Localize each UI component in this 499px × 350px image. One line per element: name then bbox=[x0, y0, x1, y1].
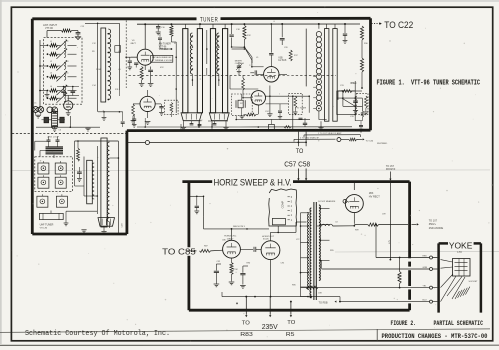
can base bypass capacitors bbox=[132, 114, 228, 127]
svg-text:220K: 220K bbox=[96, 69, 101, 71]
UHF mixer cavity 3 bbox=[38, 175, 49, 188]
tuner enclosure border (L-shape) bbox=[32, 18, 370, 234]
interstage shield wires bbox=[137, 30, 240, 130]
dotted lead-out wire to C22 bbox=[372, 22, 382, 25]
caption: FIGURE 2 bbox=[391, 320, 417, 328]
svg-text:C13: C13 bbox=[81, 26, 84, 28]
crystal dashed box (mixer grid) bbox=[231, 94, 252, 115]
UHF oscillator cavity 2 bbox=[56, 194, 67, 207]
value label cluster 1 bbox=[92, 27, 177, 91]
svg-text:TO C85: TO C85 bbox=[162, 246, 196, 256]
decorative arrow at bottom border bbox=[236, 303, 238, 305]
svg-text:AM TUNER: AM TUNER bbox=[159, 43, 171, 46]
svg-text:1 TO 1ST VIDEO IF AMP: 1 TO 1ST VIDEO IF AMP bbox=[318, 132, 342, 135]
yoke plug body bbox=[453, 259, 471, 277]
label TO C22 bbox=[384, 20, 413, 30]
svg-text:PARTIAL SCHEMATIC: PARTIAL SCHEMATIC bbox=[434, 320, 484, 328]
UHF input transformer core bbox=[46, 147, 64, 154]
yoke box border bbox=[439, 243, 481, 312]
V1 plate load parts bbox=[45, 86, 79, 98]
wire stub B to C58 bbox=[305, 132, 307, 147]
svg-text:TO R5B: TO R5B bbox=[319, 302, 328, 305]
IF transformer T1 base bbox=[181, 113, 202, 130]
V4 cathode resistor R22 bbox=[240, 113, 259, 119]
HV filament choke bbox=[317, 221, 338, 226]
svg-text:C4: C4 bbox=[66, 61, 68, 63]
IF transformer T2 base bbox=[209, 113, 229, 130]
lead-in label TO 1ST FROM SOUND bbox=[386, 166, 396, 171]
IF output coupling bbox=[266, 104, 289, 119]
caption: PRODUCTION CHANGES - MTR-537C-00 bbox=[382, 333, 488, 340]
UHF mixer cavity 4 bbox=[55, 175, 66, 188]
AGC filter dashed box (right) bbox=[357, 93, 369, 115]
value label cluster 2 bbox=[236, 29, 369, 118]
svg-text:235V: 235V bbox=[262, 324, 278, 331]
B+ supply bus wire bbox=[137, 23, 360, 25]
RF input coil L7 slug bbox=[101, 28, 106, 102]
V2 cathode resistor R7 bbox=[139, 67, 145, 87]
svg-text:WHT/RED: WHT/RED bbox=[377, 143, 388, 145]
RF amp tube V1 6BQ7A bbox=[47, 95, 73, 115]
dropping resistor R12 (vertical) bbox=[243, 25, 246, 48]
svg-text:TO C30: TO C30 bbox=[366, 141, 374, 143]
svg-text:1.5M: 1.5M bbox=[398, 274, 400, 279]
RF coil feed wire (left) bbox=[81, 23, 120, 112]
oscillator coil T3 base bbox=[318, 111, 326, 130]
oscillator section grid wire bbox=[158, 33, 245, 76]
cathode capacitor C93 bbox=[240, 266, 248, 288]
svg-text:TO 1ST: TO 1ST bbox=[386, 166, 395, 168]
svg-text:L70: L70 bbox=[457, 250, 462, 254]
UHF mixer cavity 2 bbox=[55, 161, 66, 174]
grid resistor R17 bbox=[289, 50, 292, 61]
svg-text:REPLACE WHEN DEF: REPLACE WHEN DEF bbox=[152, 56, 172, 59]
svg-text:TUNER: TUNER bbox=[200, 17, 219, 24]
yoke wire 4 (blue) bbox=[339, 299, 437, 303]
label L70 bbox=[457, 250, 462, 254]
label 235V bbox=[262, 324, 278, 331]
yoke plug label SOCKET bbox=[469, 281, 479, 283]
svg-text:C5: C5 bbox=[66, 73, 68, 75]
IF transformer T1 windings bbox=[183, 24, 203, 113]
label YOKE bbox=[449, 240, 473, 250]
svg-text:DO NOT MEASURE: DO NOT MEASURE bbox=[318, 200, 336, 203]
svg-text:350V+: 350V+ bbox=[429, 223, 437, 226]
svg-text:2ND ANODE: 2ND ANODE bbox=[429, 227, 444, 230]
tuner internal dashed divider bbox=[12, 132, 127, 134]
caption: Schematic Courtesy Of Motorola, Inc. bbox=[25, 330, 170, 338]
UHF mixer cavity 1 bbox=[38, 161, 49, 174]
label TO R5B bbox=[319, 301, 337, 305]
component pack outline (irregular) bbox=[269, 189, 297, 226]
svg-text:HORIZ SWEEP & H.V.: HORIZ SWEEP & H.V. bbox=[214, 176, 292, 187]
V3 label bbox=[278, 57, 287, 62]
AGC filter dashed box (left) bbox=[288, 93, 302, 115]
svg-text:2 TO 2ND VIDEO IF: 2 TO 2ND VIDEO IF bbox=[300, 138, 319, 140]
production changes box divider bbox=[376, 329, 378, 341]
bottom feed wire TO R5 bbox=[290, 301, 292, 318]
value label cluster 3 (ANT box) bbox=[50, 41, 68, 88]
oscillator coil T3 winding circles bbox=[313, 24, 321, 111]
oscillator feedback capacitor C18 bbox=[229, 24, 244, 48]
svg-text:GRN: GRN bbox=[423, 267, 428, 269]
RF input coil L7 winding bbox=[107, 29, 110, 100]
mixer grid resistor R21 bbox=[242, 75, 245, 99]
trimmer stack assembly bbox=[42, 112, 65, 132]
svg-text:UHF TUNER: UHF TUNER bbox=[40, 223, 54, 226]
IF output wire with junction bbox=[127, 141, 306, 145]
antenna section bottom wire bbox=[36, 116, 100, 131]
svg-text:FIGURE 2.: FIGURE 2. bbox=[391, 320, 417, 328]
svg-text:TO: TO bbox=[242, 321, 250, 327]
label ANT INPUT bbox=[43, 23, 58, 30]
mixer bottom bus wire bbox=[235, 96, 310, 130]
figure 2 value labels bbox=[204, 214, 387, 295]
mixer output wire bbox=[230, 76, 258, 89]
svg-text:HORIZ OSC: HORIZ OSC bbox=[224, 236, 237, 238]
yoke hatching bbox=[455, 287, 470, 299]
tube V3 oscillator 6U8 bbox=[257, 62, 287, 82]
tube V2 6BZ7 RF amplifier bbox=[131, 23, 153, 70]
decoupling capacitor C10 bbox=[156, 24, 161, 35]
sound IF destination label bbox=[366, 141, 388, 145]
RF coil tap wire (right) bbox=[115, 23, 121, 96]
label TUNER bbox=[200, 17, 219, 24]
V3 plate feed bbox=[269, 23, 273, 62]
label HORIZ SWEEP & H.V. bbox=[214, 176, 292, 187]
UHF antenna input capacitors bbox=[47, 137, 60, 142]
svg-text:AT TERMINAL 4 SOLDER: AT TERMINAL 4 SOLDER bbox=[152, 59, 174, 62]
tuning gang dashed link bbox=[129, 74, 337, 76]
mixer screen ground wire bbox=[267, 86, 272, 117]
component pack pin list bbox=[288, 197, 293, 222]
svg-text:SOCKET: SOCKET bbox=[469, 281, 479, 283]
caption: PARTIAL SCHEMATIC bbox=[434, 320, 484, 328]
svg-text:TO TUNER: TO TUNER bbox=[297, 108, 307, 110]
svg-text:R83: R83 bbox=[240, 332, 253, 338]
bottom feed wire TO R83 bbox=[245, 296, 247, 318]
UHF antenna label bbox=[48, 136, 60, 139]
arrow wire into C57 bbox=[297, 169, 299, 181]
svg-text:6CD6: 6CD6 bbox=[263, 239, 269, 241]
figure 2 enclosure top dash bbox=[182, 180, 212, 183]
UHF section wires bbox=[35, 140, 119, 233]
oscillator tank diagonal wire bbox=[244, 47, 263, 67]
label TO C85 bbox=[162, 246, 196, 256]
svg-text:OSC ADJ: OSC ADJ bbox=[235, 62, 244, 65]
tube V20 horizontal output bbox=[261, 222, 306, 260]
svg-text:6BZ7: 6BZ7 bbox=[131, 43, 137, 45]
svg-text:TO: TO bbox=[287, 320, 295, 326]
video IF routing bracket 1 bbox=[304, 132, 361, 137]
sound takeoff label bbox=[351, 83, 358, 85]
mixer grid leak label bbox=[235, 61, 244, 66]
UHF transformer leads bbox=[40, 141, 58, 158]
oscillator network ladder bbox=[337, 81, 364, 132]
coupling capacitor C20 bbox=[280, 24, 285, 45]
wire from left border to component pack bbox=[190, 196, 269, 230]
svg-text:VTU-90: VTU-90 bbox=[40, 227, 48, 229]
svg-text:TO C22: TO C22 bbox=[384, 20, 413, 30]
top bus right segment drops bbox=[343, 24, 348, 43]
capacitor C1 with ground bbox=[75, 31, 81, 40]
UHF IF coil L18 (tall) bbox=[101, 138, 110, 228]
tube V19 horizontal oscillator label bbox=[224, 236, 237, 241]
sound IF takeoff wire bbox=[337, 138, 365, 142]
svg-text:RED: RED bbox=[423, 255, 428, 257]
svg-text:L30: L30 bbox=[340, 91, 343, 93]
heater supply wire bbox=[240, 118, 352, 128]
label TO R83 bbox=[240, 321, 253, 338]
V2 grid wire bbox=[125, 56, 137, 58]
svg-text:C6: C6 bbox=[59, 130, 61, 132]
UHF oscillator cavity 1 bbox=[37, 194, 48, 207]
svg-text:L3: L3 bbox=[50, 73, 52, 75]
svg-text:SEE P: SEE P bbox=[350, 83, 356, 85]
arrow wire into C58 bbox=[305, 169, 307, 181]
fine tuning trimmer bbox=[236, 62, 243, 74]
V20 cathode wire bbox=[270, 260, 272, 297]
B+ feed resistor R30 (vertical, right) bbox=[360, 26, 363, 89]
UHF B+ resistor R41 bbox=[77, 148, 80, 161]
B+ distribution wire bbox=[222, 292, 341, 303]
svg-text:470K: 470K bbox=[233, 269, 238, 271]
caption: FIGURE 1. VTT-96 TUNER SCHEMATIC bbox=[377, 79, 481, 87]
UHF IF coil L17 (mid) bbox=[87, 160, 95, 204]
svg-text:Schematic Courtesy Of Motorola: Schematic Courtesy Of Motorola, Inc. bbox=[25, 330, 170, 338]
boost resistor 1.5M on yoke feed bbox=[398, 257, 401, 289]
svg-text:C6: C6 bbox=[66, 86, 68, 88]
UHF ground symbols bbox=[64, 196, 87, 233]
svg-text:TO: TO bbox=[296, 148, 304, 155]
HV anode lead to top border bbox=[353, 183, 355, 190]
yoke wiring fan bbox=[441, 260, 466, 302]
svg-text:PRODUCTION CHANGES - MTR-537C-: PRODUCTION CHANGES - MTR-537C-00 bbox=[382, 333, 488, 340]
svg-text:L1: L1 bbox=[50, 41, 52, 43]
mixer plate output wire bbox=[265, 95, 310, 97]
V2 designator label bbox=[131, 40, 137, 45]
V19 cathode resistor R88 bbox=[229, 258, 235, 285]
V2 grid trimmer capacitors bbox=[128, 57, 139, 70]
svg-text:V3B: V3B bbox=[278, 57, 283, 59]
oscillator coil T3 slug rectangles bbox=[306, 24, 337, 121]
IF transformer T2 windings bbox=[210, 24, 227, 113]
AGC line dashed box (V2B plate) bbox=[165, 100, 178, 117]
tube V2B mixer section bbox=[133, 90, 161, 124]
svg-text:R5: R5 bbox=[286, 332, 295, 338]
label UHF TUNER bbox=[40, 223, 54, 229]
antenna series resistor R1 bbox=[47, 29, 78, 38]
dropping resistor R3 (vertical) bbox=[170, 25, 173, 42]
yoke wire 2 (green) bbox=[322, 260, 438, 270]
svg-text:FIGURE 1. VTT-96 TUNER SCHEMA: FIGURE 1. VTT-96 TUNER SCHEMATIC bbox=[377, 79, 481, 87]
svg-text:L4: L4 bbox=[50, 86, 52, 88]
coupling capacitor C90 bbox=[240, 247, 261, 252]
svg-text:HORIZ OUT: HORIZ OUT bbox=[262, 236, 275, 238]
V2 bypass capacitor C8 bbox=[148, 67, 154, 87]
width coil feed wire bbox=[389, 182, 391, 261]
label TO R5 bbox=[286, 320, 296, 338]
IF takeoff vertical wire bbox=[293, 96, 307, 130]
shield dashed line (vertical) bbox=[125, 21, 127, 89]
UHF crystal holder box bbox=[39, 211, 63, 220]
svg-text:C57 C58: C57 C58 bbox=[284, 159, 310, 168]
V2B grid components bbox=[131, 104, 164, 123]
svg-text:HV RECT: HV RECT bbox=[369, 196, 380, 199]
flyback transformer T20 bbox=[301, 202, 330, 300]
label TO 107 350V 2ND ANODE bbox=[429, 220, 444, 230]
bottom feed wire 235V bbox=[269, 297, 271, 318]
svg-text:YOKE: YOKE bbox=[449, 240, 473, 250]
svg-text:L2: L2 bbox=[50, 61, 52, 63]
svg-text:BLU: BLU bbox=[423, 299, 428, 301]
tube V19 horizontal oscillator bbox=[223, 229, 241, 258]
screen bypass capacitor C92 bbox=[214, 264, 221, 287]
UHF IF coil L18 base bbox=[98, 218, 115, 235]
antenna section left bus wire bbox=[39, 40, 47, 108]
UHF bypass capacitor C44 bbox=[77, 167, 82, 181]
UHF output label bbox=[122, 223, 124, 227]
UHF tuner dashed enclosure bbox=[35, 157, 73, 192]
wire stub A to C57 bbox=[298, 132, 300, 147]
V3 plate capacitor C21 bbox=[250, 70, 256, 75]
tube V21 HV rectifier 1B3 bbox=[343, 195, 363, 224]
component pack inner rectangle bbox=[272, 218, 285, 224]
antenna input tuned circuits L1-L6 bbox=[47, 39, 77, 103]
RF coil bottom wire bbox=[98, 111, 125, 127]
label TO C57 C58 bbox=[284, 148, 310, 168]
wire from sound IF into figure 2 box bbox=[389, 172, 391, 181]
figure 2 enclosure border bbox=[189, 182, 410, 311]
grid capacitor C84 bbox=[194, 196, 199, 214]
svg-text:C2: C2 bbox=[66, 41, 68, 43]
svg-text:TO 107: TO 107 bbox=[429, 220, 438, 223]
svg-text:COMP: COMP bbox=[281, 201, 284, 209]
svg-text:L5: L5 bbox=[34, 102, 36, 104]
balun test loops J1 J2 bbox=[33, 102, 44, 118]
svg-text:VTT-96: VTT-96 bbox=[45, 27, 54, 30]
sound takeoff network bbox=[338, 90, 362, 114]
tube V4 mixer 6U8 pentode bbox=[243, 91, 266, 114]
wire from C85 into box bbox=[187, 249, 223, 252]
oscillator injection wire bbox=[244, 47, 252, 63]
yoke wire 3 (yellow) bbox=[301, 285, 438, 289]
svg-text:FROM IF: FROM IF bbox=[386, 169, 396, 171]
V21 label bbox=[318, 192, 380, 203]
V2 identification text block bbox=[159, 43, 171, 52]
antenna matching network dashed box bbox=[44, 38, 82, 105]
video IF routing bracket 2 bbox=[294, 138, 336, 142]
tube V20 horizontal output label bbox=[262, 236, 275, 241]
svg-text:L8: L8 bbox=[336, 221, 338, 223]
HV output wire with resistor R99 bbox=[333, 223, 419, 227]
svg-text:SEE NOTE 3: SEE NOTE 3 bbox=[233, 226, 246, 228]
mixer adjust callout box bbox=[151, 55, 174, 62]
svg-text:1/2 6U8: 1/2 6U8 bbox=[278, 60, 287, 62]
flyback left tap bus bbox=[300, 213, 302, 297]
yoke wire 1 (red) bbox=[376, 225, 437, 259]
